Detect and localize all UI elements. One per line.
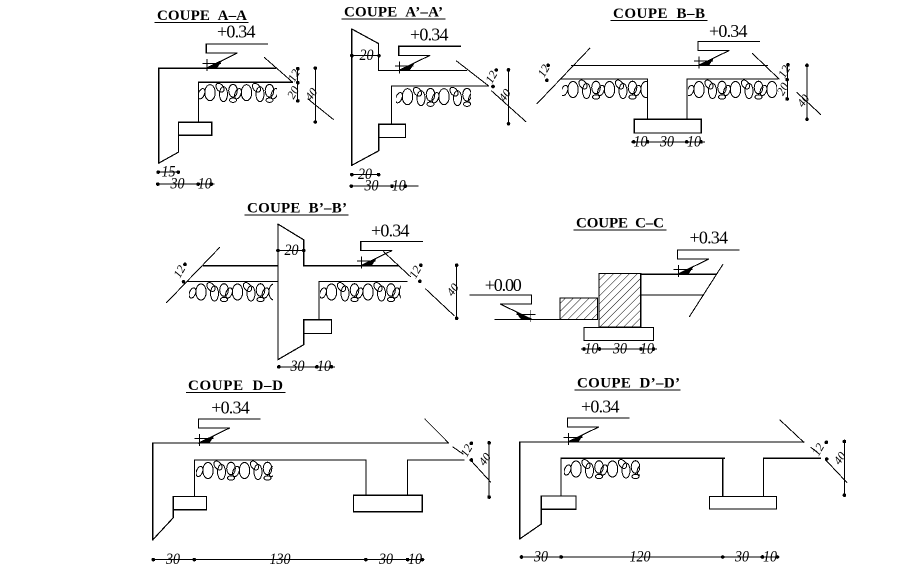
level mark [695, 41, 760, 68]
beam web line [391, 86, 393, 124]
slab top line [159, 67, 276, 69]
cut diagonal [690, 265, 723, 317]
svg-text:+0.34: +0.34 [211, 398, 250, 418]
cut diagonal tick [453, 447, 463, 454]
svg-text:+0.00: +0.00 [485, 275, 522, 295]
hatched step [560, 298, 598, 319]
hourdis line [198, 81, 292, 83]
svg-text:30: 30 [290, 358, 305, 375]
dim 40 [456, 265, 458, 318]
footing rectangle [584, 328, 654, 341]
cut diagonal lower [492, 91, 526, 122]
wall left line [277, 224, 279, 360]
svg-text:40: 40 [444, 281, 462, 299]
svg-text:COUPE C–C: COUPE C–C [576, 216, 664, 232]
svg-text:+0.34: +0.34 [371, 221, 410, 241]
cut diagonal upper [456, 61, 488, 86]
svg-text:30: 30 [165, 551, 180, 568]
svg-text:+0.34: +0.34 [690, 228, 729, 248]
rib footing rectangle [353, 495, 422, 512]
dim 30 / 10 [158, 183, 214, 185]
wall bottom break [278, 334, 304, 360]
svg-text:30: 30 [659, 133, 674, 150]
level mark [195, 419, 260, 446]
dim 12 [494, 68, 498, 72]
hourdis gravel band right [686, 79, 800, 100]
rib right line [686, 79, 688, 119]
hourdis line right [764, 457, 821, 459]
step web line [560, 458, 562, 496]
svg-text:40: 40 [496, 86, 514, 104]
cut diagonal right lower [426, 289, 455, 316]
cut diagonal upper [265, 58, 293, 83]
left wall line [152, 443, 154, 540]
dim 40 [314, 68, 316, 122]
svg-text:20: 20 [285, 242, 299, 259]
rib left line [722, 458, 724, 496]
svg-text:20: 20 [284, 84, 302, 101]
svg-text:12: 12 [809, 441, 827, 458]
hourdis line [561, 457, 724, 459]
dim 20 wall [278, 250, 304, 252]
left wall line [351, 29, 353, 165]
level mark +0.00 mirrored [470, 295, 535, 322]
hourdis line left [561, 78, 648, 80]
cut diagonal left [537, 48, 590, 103]
cut diagonal left [167, 248, 220, 303]
svg-text:30: 30 [734, 548, 749, 565]
step rectangle [173, 497, 206, 510]
svg-text:40: 40 [476, 450, 494, 468]
svg-text:COUPE D–D: COUPE D–D [188, 378, 283, 394]
slab top line [520, 441, 804, 443]
hourdis gravel band [563, 458, 677, 479]
svg-text:40: 40 [302, 85, 320, 103]
beam web line [197, 82, 199, 122]
hourdis line right [408, 459, 464, 461]
hourdis line [392, 85, 489, 87]
svg-text:10: 10 [763, 548, 777, 565]
hourdis gravel band [195, 460, 309, 481]
cut diagonal right upper [753, 54, 779, 79]
level mark [395, 46, 460, 73]
wall bottom break [352, 138, 379, 166]
dim 12 right [419, 263, 423, 267]
svg-text:30: 30 [533, 548, 548, 565]
cut diagonal lower [308, 99, 333, 119]
svg-text:12: 12 [534, 62, 552, 79]
hourdis line [194, 459, 366, 461]
cut diagonal lower [471, 460, 491, 482]
svg-text:10: 10 [640, 340, 654, 357]
dim 12 left [183, 263, 187, 267]
step rectangle [541, 496, 576, 509]
svg-text:COUPE B–B: COUPE B–B [613, 6, 705, 22]
slab bottom right [641, 294, 704, 296]
dim 40 right [806, 65, 808, 119]
dim 20 wall [352, 55, 379, 57]
step rectangle [304, 320, 332, 334]
wall bottom break [520, 509, 542, 539]
slab top line [572, 65, 768, 67]
hourdis line right [319, 281, 407, 283]
svg-text:COUPE B’–B’: COUPE B’–B’ [247, 201, 347, 217]
step rectangle [178, 122, 211, 135]
dim 40 [843, 442, 845, 496]
rib left line [647, 79, 649, 119]
svg-text:130: 130 [270, 551, 291, 568]
svg-text:10: 10 [687, 133, 701, 150]
svg-text:10: 10 [585, 340, 599, 357]
level mark [674, 250, 739, 277]
hourdis gravel band [197, 82, 311, 103]
step web line [193, 460, 195, 497]
svg-text:30: 30 [170, 176, 185, 193]
slab top line [378, 70, 466, 72]
cut diagonal right upper [384, 252, 411, 277]
dim 10/30/10 [632, 141, 705, 143]
dim 15 [158, 171, 178, 173]
slab top left [203, 265, 278, 267]
hourdis gravel band left [188, 281, 302, 302]
dim 10/30/10 [582, 348, 657, 350]
svg-text:40: 40 [831, 449, 849, 467]
slab top right [304, 265, 399, 267]
svg-text:10: 10 [634, 133, 648, 150]
svg-text:+0.34: +0.34 [709, 21, 748, 41]
svg-text:30: 30 [378, 551, 393, 568]
hourdis gravel band right [318, 281, 432, 302]
svg-text:COUPE D’–D’: COUPE D’–D’ [577, 376, 680, 392]
cut diagonal tick [811, 448, 817, 452]
svg-text:COUPE A’–A’: COUPE A’–A’ [344, 5, 443, 21]
level mark [203, 44, 268, 71]
dim 30 / 10 [351, 185, 418, 187]
dim 30 / 10 [279, 366, 335, 368]
slab top right [641, 273, 717, 275]
beam web line [318, 282, 320, 320]
svg-text:10: 10 [317, 358, 331, 375]
left wall line [158, 68, 160, 163]
svg-text:+0.34: +0.34 [581, 397, 620, 417]
cut diagonal right lower [797, 93, 821, 115]
svg-text:10: 10 [198, 176, 212, 193]
hourdis line right [687, 78, 778, 80]
dim 12 [825, 441, 829, 445]
dim 12/20 axis right [787, 65, 789, 99]
dim 40 [488, 443, 490, 497]
dim 30/120/30/10 [522, 556, 780, 558]
svg-text:10: 10 [408, 551, 422, 568]
hourdis gravel band [394, 86, 508, 107]
wall bottom break [153, 510, 174, 540]
wall wedge top [278, 224, 304, 266]
cut diagonal lower [826, 460, 847, 482]
dim 12 [470, 442, 474, 446]
level mark [564, 418, 629, 445]
svg-text:30: 30 [364, 178, 379, 195]
svg-text:20: 20 [360, 47, 374, 64]
dim 30/130/30/10 [153, 559, 424, 561]
dim 12 left [546, 64, 550, 68]
cut diagonal upper [780, 420, 804, 442]
svg-text:30: 30 [612, 340, 627, 357]
rib right line [763, 458, 765, 496]
svg-text:12: 12 [285, 67, 303, 84]
wall wedge top [352, 29, 379, 71]
step rectangle [379, 124, 406, 137]
svg-text:+0.34: +0.34 [217, 22, 256, 42]
left wall line [519, 442, 521, 539]
svg-text:+0.34: +0.34 [410, 25, 449, 45]
footing rectangle [634, 119, 701, 133]
dim 12/20 axis [297, 69, 299, 101]
rib left line [365, 460, 367, 495]
svg-text:120: 120 [630, 548, 651, 565]
cut diagonal upper [425, 419, 449, 443]
svg-text:10: 10 [392, 178, 406, 195]
wall bottom break [159, 135, 179, 163]
rib footing rectangle [709, 496, 776, 509]
hourdis line left [187, 281, 278, 283]
level mark [357, 241, 422, 268]
dim 20 bottom [352, 174, 379, 176]
slab top line [153, 442, 449, 444]
svg-text:40: 40 [794, 92, 812, 110]
ground line [495, 318, 562, 320]
hourdis gravel band left [560, 79, 674, 100]
rib right line [407, 460, 409, 495]
dim 40 [508, 70, 510, 124]
hatched column [599, 273, 641, 327]
